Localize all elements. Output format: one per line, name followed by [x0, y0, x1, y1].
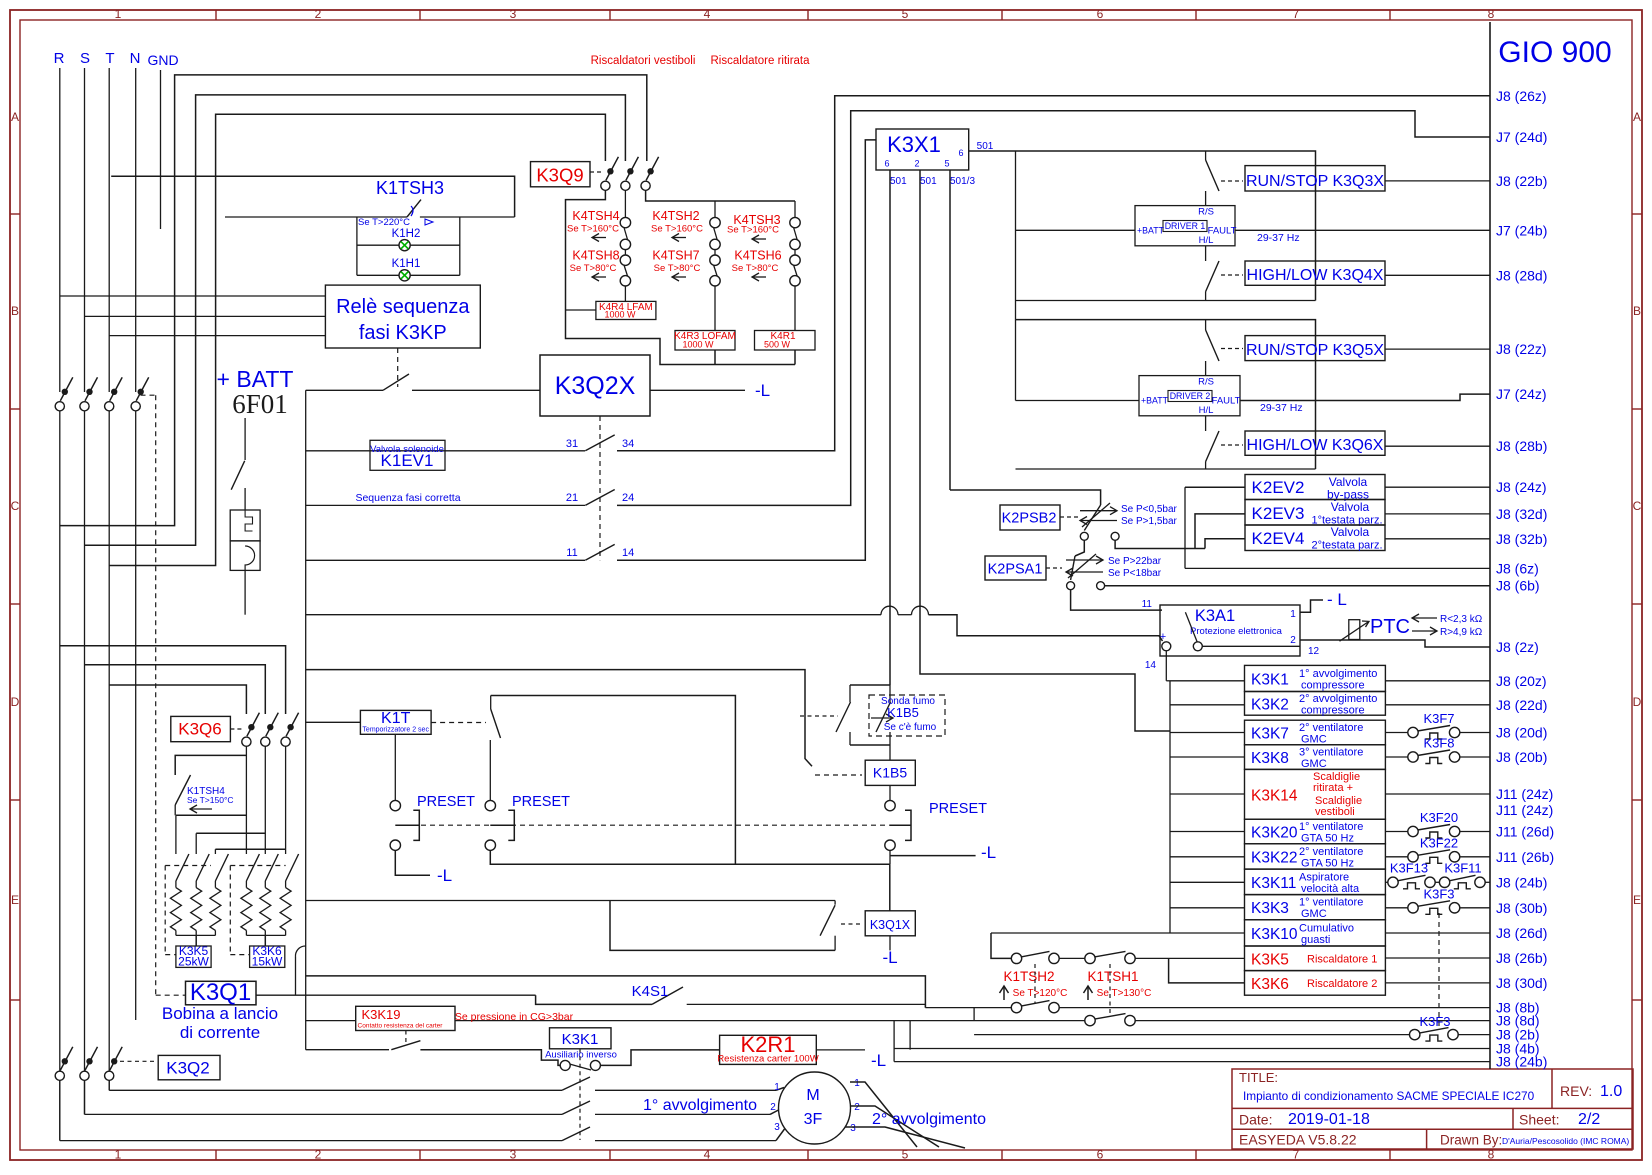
svg-text:6: 6	[1097, 7, 1104, 21]
svg-text:R/S: R/S	[1198, 207, 1214, 218]
wire K4TSH2 chain drop	[714, 201, 716, 218]
relay K3K3	[1245, 895, 1386, 920]
wire PRESET2 bottom row	[490, 850, 890, 864]
svg-text:DRIVER 2: DRIVER 2	[1170, 391, 1211, 401]
svg-text:K3K5: K3K5	[1251, 951, 1289, 968]
contact K3Q2 a	[55, 1071, 64, 1080]
svg-text:K2EV3: K2EV3	[1252, 504, 1305, 523]
svg-text:Contatto resistenza del carter: Contatto resistenza del carter	[358, 1023, 444, 1030]
contact K3Q9 b	[621, 181, 630, 190]
svg-text:K3K8: K3K8	[1251, 750, 1289, 767]
K1B5 linkage dashed	[815, 774, 862, 776]
wire K3Q9 c across	[646, 191, 795, 202]
svg-text:R: R	[54, 50, 65, 67]
svg-text:Se T>80°C: Se T>80°C	[570, 263, 617, 274]
wire row 34 to J8 26z	[617, 96, 1490, 451]
svg-text:K1B5: K1B5	[873, 765, 907, 781]
contact K3Q2 b	[80, 1071, 89, 1080]
resistor group 1	[175, 815, 177, 854]
wire K2EV4 feed	[1205, 539, 1245, 549]
svg-text:Se T>120°C: Se T>120°C	[1013, 988, 1068, 999]
svg-text:C: C	[1633, 499, 1642, 513]
svg-text:K1TSH3: K1TSH3	[376, 178, 444, 198]
svg-text:2: 2	[914, 159, 919, 169]
contact K3F3 upper	[1385, 907, 1408, 909]
wire K3Q9 b down	[624, 191, 626, 219]
svg-text:K1H1: K1H1	[392, 258, 421, 270]
svg-text:R/S: R/S	[1198, 377, 1214, 388]
svg-text:GND: GND	[147, 52, 178, 68]
svg-text:J8 (24b): J8 (24b)	[1496, 1054, 1547, 1070]
wire merge to K3K5 box	[195, 935, 197, 946]
svg-text:Drawn By:: Drawn By:	[1440, 1133, 1502, 1148]
svg-text:K3F7: K3F7	[1423, 711, 1454, 726]
wire driver1 left rail	[1015, 151, 1017, 320]
svg-text:501: 501	[920, 176, 937, 187]
svg-text:J7 (24b): J7 (24b)	[1496, 222, 1547, 238]
wire J8 8b row	[925, 1007, 1011, 1009]
relay K3Q2	[158, 1055, 220, 1079]
wire K3K10 row	[991, 932, 1245, 934]
svg-text:K1B5: K1B5	[887, 705, 919, 720]
breaker contact N 6F01	[131, 402, 140, 411]
svg-text:1° ventilatore: 1° ventilatore	[1299, 821, 1363, 833]
svg-text:+BATT: +BATT	[1141, 396, 1169, 406]
contact K1TSH1 upper	[1085, 953, 1095, 963]
breaker contact S 6F01	[80, 402, 89, 411]
svg-text:15kW: 15kW	[252, 955, 283, 969]
wire K3A1 pin1 to -L	[1300, 600, 1323, 612]
wire chain K4TSH7 to K4R3	[714, 250, 716, 255]
relay K3Q1X	[865, 911, 915, 936]
svg-text:GTA 50 Hz: GTA 50 Hz	[1301, 833, 1354, 845]
wire heater bottom rail	[714, 350, 716, 365]
svg-text:J8 (24b): J8 (24b)	[1496, 874, 1547, 890]
svg-text:Se T>130°C: Se T>130°C	[1097, 988, 1152, 999]
svg-text:PRESET: PRESET	[417, 794, 475, 810]
wire pressure rail	[950, 490, 1101, 505]
wire row 31-34	[306, 450, 585, 452]
svg-text:1.0: 1.0	[1600, 1083, 1622, 1100]
svg-text:K3K22: K3K22	[1251, 849, 1298, 866]
wire S to top rail 2	[85, 95, 626, 545]
wire K3X1 pin 6 down to smoke block	[889, 170, 891, 685]
wire K3Q4X to J8 28d	[1385, 274, 1490, 276]
wire J8 6z	[1185, 567, 1490, 569]
wire K1TSH4 to resistor a	[176, 814, 247, 816]
svg-text:2° ventilatore: 2° ventilatore	[1299, 722, 1363, 734]
svg-text:J8 (6b): J8 (6b)	[1496, 578, 1540, 594]
K1TSH1 linkage dashed	[1109, 964, 1111, 1017]
wire chain to K3K5	[1135, 957, 1244, 959]
wire K4S1 out	[687, 1003, 926, 1005]
contact K3Q2X 31-34	[585, 435, 614, 451]
svg-text:J8 (28d): J8 (28d)	[1496, 267, 1547, 283]
relay K3Q1	[186, 981, 257, 1005]
svg-text:3F: 3F	[804, 1111, 823, 1128]
wire K4TSH3 chain drop	[794, 201, 796, 218]
svg-text:K3F3: K3F3	[1423, 887, 1454, 902]
svg-text:D: D	[1633, 695, 1642, 709]
svg-text:K4TSH7: K4TSH7	[652, 249, 699, 263]
wire K3Q2 verticals	[59, 1081, 61, 1141]
svg-text:K1TSH1: K1TSH1	[1087, 969, 1138, 984]
breaker contact T 6F01	[105, 402, 114, 411]
wire K2R1 to -L	[816, 1049, 865, 1051]
wire K4S1 row	[536, 995, 652, 1004]
wire K3Q3X to J8 22b	[1385, 180, 1490, 182]
svg-text:N: N	[130, 50, 141, 67]
wire driver2 left rail	[1015, 320, 1017, 401]
svg-text:PRESET: PRESET	[512, 794, 570, 810]
svg-text:K4TSH6: K4TSH6	[734, 249, 781, 263]
svg-text:J8 (22z): J8 (22z)	[1496, 341, 1547, 357]
svg-text:K2EV2: K2EV2	[1252, 478, 1305, 497]
wire PSB2 left circle down	[1075, 540, 1084, 556]
relay K3K1	[1245, 665, 1386, 691]
svg-text:E: E	[11, 893, 19, 907]
svg-text:T: T	[105, 50, 114, 67]
svg-text:GMC: GMC	[1301, 908, 1327, 920]
svg-text:K3K3: K3K3	[1251, 900, 1289, 917]
contact K3Q2 c	[105, 1071, 114, 1080]
svg-text:K3K1: K3K1	[562, 1031, 599, 1048]
contact K3F11	[1439, 877, 1449, 887]
wire K3Q5X to J8 22z	[1385, 348, 1490, 350]
contact K1TSH3	[225, 216, 407, 218]
contact R/S driver2	[1205, 320, 1207, 330]
wire to K3Q1X coil	[889, 864, 891, 911]
wire K4R4 left feed	[566, 309, 596, 311]
wire K3Q9 a to K4R4 left	[566, 191, 796, 365]
wire staircase 8d-4b	[909, 1021, 911, 1050]
relay K1B5	[889, 745, 891, 760]
svg-text:K4S1: K4S1	[632, 983, 669, 1000]
wire K2EV2 to J8 24z	[1385, 486, 1490, 488]
wire J8 8d row	[455, 1020, 1085, 1022]
wire K3X1 pin6 right	[969, 150, 1016, 152]
relay K3X1	[876, 129, 969, 170]
svg-text:1° ventilatore: 1° ventilatore	[1299, 897, 1363, 909]
contact K2PSB2	[1084, 505, 1100, 531]
contact chain K4TSH8	[620, 255, 630, 265]
svg-text:2019-01-18: 2019-01-18	[1288, 1111, 1370, 1128]
svg-text:K3K10: K3K10	[1251, 926, 1298, 943]
contact K3K19	[391, 1041, 420, 1050]
svg-text:1: 1	[854, 1078, 860, 1089]
svg-text:3: 3	[774, 1122, 780, 1133]
wire bus to K3K19	[306, 1020, 356, 1022]
wire preset -L branch	[890, 855, 976, 857]
wire row 24 to J7 24d	[617, 111, 1490, 506]
svg-text:K2PSB2: K2PSB2	[1002, 511, 1057, 527]
svg-text:Se T>160°C: Se T>160°C	[651, 224, 703, 235]
svg-text:J11 (26d): J11 (26d)	[1496, 824, 1554, 840]
svg-text:Valvola: Valvola	[1331, 500, 1370, 514]
svg-text:J8 (6z): J8 (6z)	[1496, 560, 1539, 576]
wire K3K2 right to J8 22d	[1385, 704, 1490, 706]
svg-text:K3F8: K3F8	[1423, 736, 1454, 751]
svg-text:29-37 Hz: 29-37 Hz	[1260, 402, 1303, 414]
connector rail	[1489, 22, 1491, 1069]
K3KP contact linkage dashed	[397, 348, 399, 387]
wire K3K14 right to J11 24z	[1385, 793, 1490, 795]
svg-text:Se T>80°C: Se T>80°C	[732, 263, 779, 274]
wire PSA1 to K3A1 pin11	[1071, 590, 1162, 610]
svg-text:di corrente: di corrente	[180, 1023, 260, 1042]
wire relay left rail	[1169, 681, 1171, 933]
svg-text:K3K6: K3K6	[1251, 976, 1289, 993]
wire S column	[84, 68, 86, 392]
svg-text:K1H2: K1H2	[392, 228, 421, 240]
svg-text:Se P<0,5bar: Se P<0,5bar	[1121, 504, 1178, 515]
svg-text:Date:: Date:	[1239, 1112, 1272, 1128]
svg-text:K3X1: K3X1	[887, 132, 941, 157]
contact K3Q6 a	[242, 737, 251, 746]
svg-text:J8 (20d): J8 (20d)	[1496, 725, 1547, 741]
wire resistor merge g1	[176, 934, 216, 936]
svg-text:REV:: REV:	[1560, 1083, 1592, 1099]
wire below 6F01	[244, 570, 246, 614]
svg-text:K3F22: K3F22	[1420, 836, 1458, 851]
svg-text:6: 6	[1097, 1148, 1104, 1162]
relay K3A1 protezione	[1160, 605, 1300, 656]
K3K1 linkage dashed	[579, 1049, 581, 1140]
wire PRESET1 to -L	[395, 850, 430, 875]
svg-text:Se pressione in CG>3bar: Se pressione in CG>3bar	[455, 1011, 574, 1023]
wire K2EV4 to J8 32b	[1385, 538, 1490, 540]
wire driver2 fault to J7 24z	[1240, 394, 1490, 400]
wire chain mid	[1059, 957, 1085, 959]
svg-text:RUN/STOP K3Q3X: RUN/STOP K3Q3X	[1246, 173, 1384, 190]
wire T to K1TSH3	[111, 176, 514, 217]
svg-text:Riscaldatori vestiboli: Riscaldatori vestiboli	[591, 55, 696, 67]
svg-text:K1T: K1T	[381, 710, 411, 727]
svg-text:D'Auria/Pescosolido (IMC ROMA): D'Auria/Pescosolido (IMC ROMA)	[1502, 1136, 1629, 1146]
svg-text:K3A1: K3A1	[1195, 607, 1235, 625]
wire rail stub	[1170, 881, 1245, 883]
load K3K6 15kW	[250, 946, 285, 967]
wire K3K1 right to J8 20z	[1385, 680, 1490, 682]
svg-text:Se P<18bar: Se P<18bar	[1108, 568, 1162, 579]
svg-text:compressore: compressore	[1301, 679, 1365, 691]
wire K3A1 + pin down 14	[1165, 651, 1167, 681]
relay K3K14	[1245, 769, 1386, 819]
svg-text:Sheet:: Sheet:	[1519, 1112, 1559, 1128]
wire K3Q2X to -L	[650, 389, 745, 391]
svg-text:PTC: PTC	[1370, 616, 1410, 638]
svg-text:2: 2	[770, 1102, 776, 1113]
wire rail stub	[1170, 831, 1245, 833]
svg-text:velocità alta: velocità alta	[1301, 883, 1360, 895]
svg-text:J8 (2z): J8 (2z)	[1496, 639, 1539, 655]
title block	[1232, 1069, 1633, 1149]
wire bus row 4b	[306, 1049, 389, 1051]
svg-text:GMC: GMC	[1301, 758, 1327, 770]
svg-text:Aspiratore: Aspiratore	[1299, 871, 1349, 883]
svg-text:K3K7: K3K7	[1251, 726, 1289, 743]
K1T linkage dashed	[431, 722, 486, 724]
wire row to K1B5 coil	[306, 670, 812, 767]
svg-text:H/L: H/L	[1199, 405, 1214, 416]
contact K3F20	[1385, 831, 1408, 833]
svg-text:-L: -L	[981, 843, 996, 862]
svg-text:K3Q6: K3Q6	[178, 720, 221, 739]
wire K3K6 right to J8 30d	[1385, 982, 1490, 984]
wire row 21-24	[306, 504, 585, 506]
svg-text:FAULT: FAULT	[1212, 396, 1241, 407]
wire bus row to 8b	[306, 976, 926, 1008]
svg-text:2°testata parz.: 2°testata parz.	[1311, 540, 1382, 552]
wire resistor merge g2	[246, 934, 285, 936]
svg-text:J11 (26b): J11 (26b)	[1496, 849, 1554, 865]
contact H/L driver1	[1205, 246, 1207, 261]
svg-text:K3F20: K3F20	[1420, 810, 1458, 825]
svg-text:D: D	[11, 695, 20, 709]
relay K1EV1	[370, 440, 445, 470]
pressure switch K2PSA1	[985, 556, 1046, 580]
svg-text:E: E	[1633, 893, 1641, 907]
wire K2EV2 feed	[1185, 486, 1245, 488]
wire R to K3Q6 c	[60, 646, 286, 714]
svg-text:K4TSH8: K4TSH8	[572, 249, 619, 263]
wire merge to K3K6 box	[264, 935, 266, 946]
svg-text:3: 3	[510, 1148, 517, 1162]
contact K3F22	[1385, 856, 1408, 858]
svg-text:+BATT: +BATT	[1137, 226, 1165, 236]
svg-text:21: 21	[566, 492, 578, 504]
wire chain K4TSH6 to K4R1	[794, 250, 796, 255]
svg-text:7: 7	[1293, 7, 1300, 21]
wire motor entries	[776, 1088, 784, 1091]
resistor linkage dashed g1	[165, 865, 211, 867]
contact K3Q2X 21-24	[585, 490, 614, 506]
resistor group 2	[245, 746, 247, 854]
svg-text:Se c'è fumo: Se c'è fumo	[884, 722, 937, 733]
svg-text:31: 31	[566, 438, 578, 450]
svg-text:Valvola: Valvola	[1331, 525, 1370, 539]
wire driver1 batt	[1016, 229, 1136, 231]
svg-text:Se T>220°C: Se T>220°C	[358, 217, 410, 228]
lamp network box	[356, 217, 358, 275]
svg-text:K3K14: K3K14	[1251, 787, 1298, 804]
wire K1T contact row	[491, 696, 736, 865]
svg-text:Temporizzatore 2 sec: Temporizzatore 2 sec	[362, 727, 429, 734]
contact K3Q1X	[834, 901, 836, 905]
svg-text:K4TSH2: K4TSH2	[652, 209, 699, 223]
wire T column	[108, 68, 110, 392]
contact K3F8	[1385, 756, 1408, 758]
pushbutton PRESET 2	[485, 800, 495, 810]
svg-text:J8 (22b): J8 (22b)	[1496, 173, 1547, 189]
contact K3F7	[1385, 732, 1408, 734]
svg-text:J8 (22d): J8 (22d)	[1496, 697, 1547, 713]
svg-text:11: 11	[1142, 599, 1153, 610]
svg-text:K2PSA1: K2PSA1	[988, 562, 1043, 578]
svg-text:-L: -L	[871, 1051, 886, 1070]
svg-text:3° ventilatore: 3° ventilatore	[1299, 747, 1363, 759]
svg-text:K3K20: K3K20	[1251, 825, 1298, 842]
contact K1TSH2 lower	[1011, 1002, 1021, 1012]
svg-text:ritirata +: ritirata +	[1313, 782, 1353, 794]
svg-text:2: 2	[854, 1102, 860, 1113]
svg-text:RUN/STOP K3Q5X: RUN/STOP K3Q5X	[1246, 342, 1384, 359]
svg-text:1° avvolgimento: 1° avvolgimento	[643, 1097, 757, 1114]
wire T to K3KP	[109, 335, 325, 337]
svg-text:-L: -L	[755, 381, 770, 400]
svg-text:GTA 50 Hz: GTA 50 Hz	[1301, 857, 1354, 869]
contact K3Q2X 11-14	[585, 544, 614, 560]
svg-text:B: B	[1633, 304, 1641, 318]
wire R to top rail 1	[60, 75, 647, 526]
wire T to top rail 3	[109, 114, 605, 565]
svg-text:J11 (24z): J11 (24z)	[1496, 802, 1553, 818]
wire K2EV3 feed	[1195, 514, 1245, 549]
svg-text:3: 3	[850, 1123, 856, 1134]
contact K1T	[490, 696, 492, 710]
svg-text:-L: -L	[882, 948, 897, 967]
resistor K2R1	[720, 1035, 817, 1064]
svg-text:Se T>150°C: Se T>150°C	[187, 795, 233, 805]
wire K3Q1 to K4S1 row	[256, 994, 536, 996]
svg-text:DRIVER 1: DRIVER 1	[1165, 221, 1206, 231]
wire row 14 to K3X1	[617, 140, 876, 560]
wire K3A1 pin2 to J8 2z	[1300, 640, 1490, 647]
module DRIVER 2	[1139, 376, 1240, 416]
svg-text:Riscaldatore ritirata: Riscaldatore ritirata	[710, 55, 810, 67]
K3A1 internal contact	[1162, 642, 1171, 651]
relay Rele sequenza fasi K3KP	[325, 285, 480, 348]
svg-text:K3Q2: K3Q2	[166, 1059, 209, 1078]
wire R to K3KP	[60, 295, 326, 297]
wire rail stub	[1170, 680, 1245, 682]
wire K3K1 feed from K3A1	[1166, 680, 1170, 682]
svg-text:Riscaldatore 1: Riscaldatore 1	[1307, 953, 1377, 965]
wire J8 2b row	[974, 1034, 1409, 1036]
svg-text:Se T>80°C: Se T>80°C	[654, 263, 701, 274]
svg-text:2° avvolgimento: 2° avvolgimento	[872, 1111, 986, 1128]
svg-text:Riscaldatore 2: Riscaldatore 2	[1307, 978, 1377, 990]
svg-text:14: 14	[1145, 660, 1157, 671]
svg-text:Protezione elettronica: Protezione elettronica	[1190, 626, 1283, 637]
svg-text:4: 4	[704, 7, 711, 21]
wire staircase 8d-24b	[893, 1021, 895, 1062]
K3Q2X linkage dashed	[599, 416, 601, 560]
svg-text:J11 (24z): J11 (24z)	[1496, 786, 1553, 802]
svg-text:Cumulativo: Cumulativo	[1299, 922, 1354, 934]
relay K3Q2X	[540, 355, 650, 416]
relay K3K7	[1245, 720, 1386, 745]
svg-text:34: 34	[622, 438, 634, 450]
K3Q2 linkage dashed	[120, 1060, 156, 1062]
svg-text:J8 (30b): J8 (30b)	[1496, 900, 1547, 916]
wire T to K3Q6 a	[109, 685, 246, 714]
svg-text:1: 1	[115, 7, 122, 21]
svg-text:- L: - L	[1327, 590, 1347, 609]
wire K3Q1 up join bus	[295, 957, 297, 995]
wire J8 6b	[1105, 585, 1490, 587]
svg-text:2: 2	[1290, 635, 1296, 646]
wire PSB2 to K2EV feeds	[1115, 540, 1205, 548]
resistor K4R4 LFAM	[596, 301, 656, 319]
relay K2EV3	[1245, 500, 1385, 526]
wire K3K5 right to J8 26b	[1385, 957, 1490, 959]
svg-text:24: 24	[622, 492, 634, 504]
svg-text:1000 W: 1000 W	[682, 340, 714, 350]
svg-text:Bobina a lancio: Bobina a lancio	[162, 1004, 278, 1023]
svg-text:K3F13: K3F13	[1390, 861, 1428, 876]
pushbutton K1B5 PRESET	[889, 785, 891, 800]
